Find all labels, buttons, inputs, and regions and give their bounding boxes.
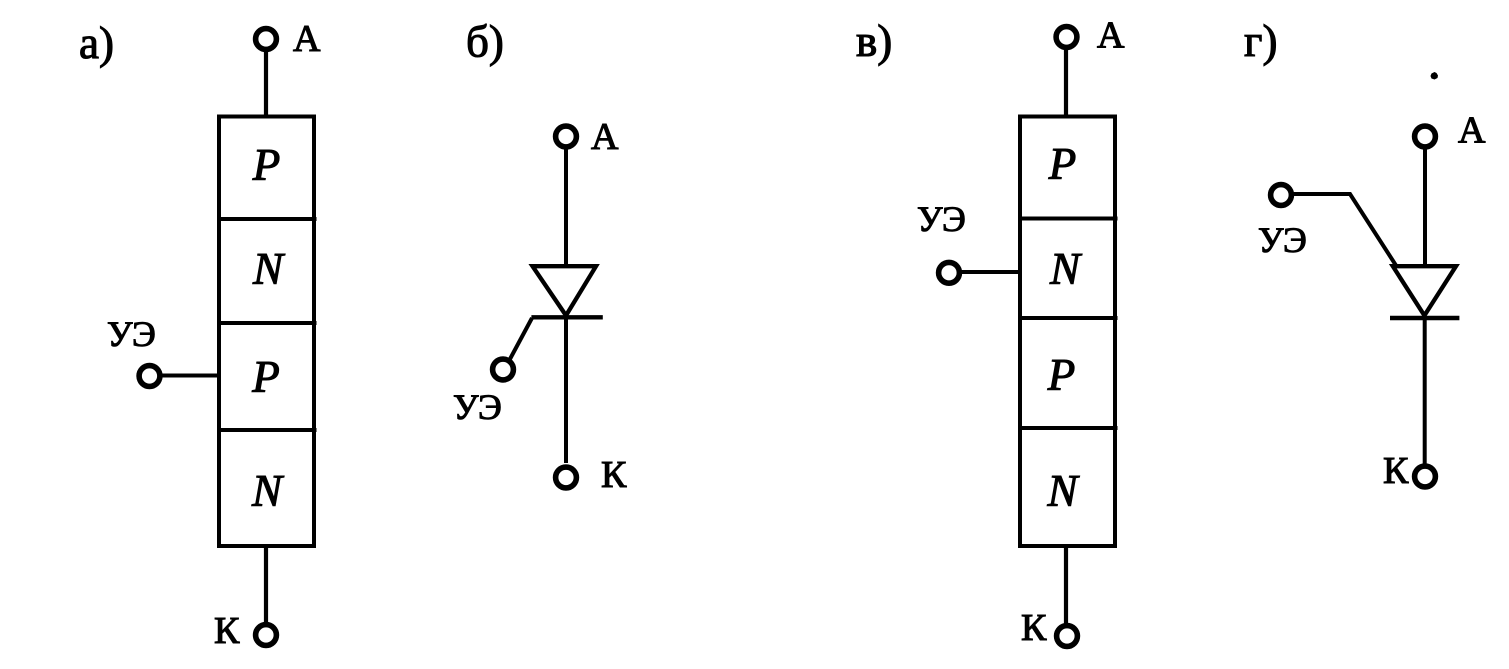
svg-text:P: P	[251, 352, 280, 402]
svg-text:УЭ: УЭ	[107, 314, 156, 354]
svg-text:А: А	[1458, 110, 1486, 152]
svg-text:а): а)	[79, 18, 114, 68]
svg-text:УЭ: УЭ	[1258, 220, 1307, 260]
svg-text:N: N	[1046, 466, 1080, 516]
svg-text:К: К	[601, 454, 627, 496]
svg-text:А: А	[591, 116, 619, 158]
svg-text:N: N	[251, 466, 285, 516]
svg-text:УЭ: УЭ	[917, 199, 966, 239]
svg-text:P: P	[252, 140, 281, 190]
svg-text:А: А	[293, 18, 321, 60]
svg-text:К: К	[1383, 450, 1409, 492]
svg-text:N: N	[1049, 244, 1083, 294]
svg-text:г): г)	[1244, 16, 1277, 66]
svg-text:К: К	[214, 610, 240, 652]
svg-text:N: N	[252, 244, 286, 294]
svg-text:в): в)	[856, 16, 892, 66]
svg-text:УЭ: УЭ	[453, 387, 502, 427]
svg-text:К: К	[1021, 607, 1047, 649]
svg-text:А: А	[1097, 15, 1125, 57]
svg-text:P: P	[1048, 139, 1077, 189]
svg-text:P: P	[1047, 350, 1076, 400]
svg-text:б): б)	[466, 17, 504, 67]
